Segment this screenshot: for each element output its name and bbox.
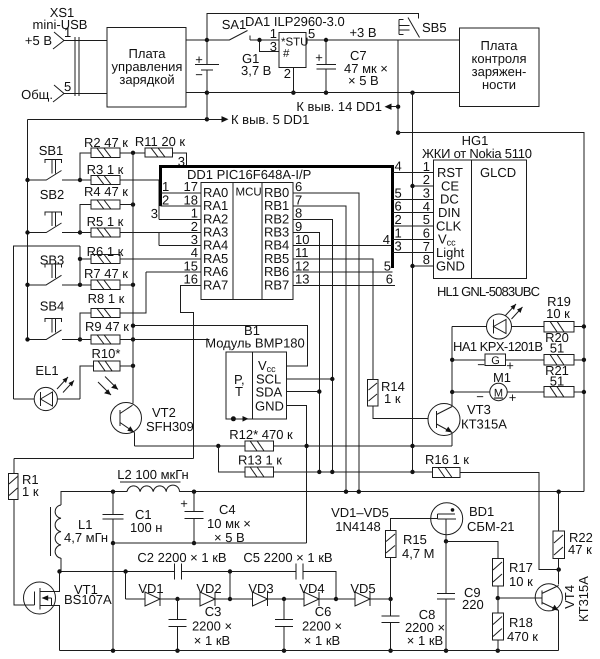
wire DA1 pin3 loop to pin1	[260, 40, 280, 52]
svg-text:RB7: RB7	[264, 277, 289, 292]
capacitor C2 2200x1kV	[137, 550, 226, 580]
pin 4 RA5 line	[120, 258, 201, 260]
inductor L1 4.7mH	[50, 505, 108, 572]
capacitor C9 220	[437, 541, 484, 650]
resistor R19 10k	[544, 294, 584, 332]
module B1 BMP180	[205, 323, 305, 419]
pin 10 RB4 wire	[293, 245, 393, 247]
wire bottom ground rail	[60, 650, 559, 652]
svg-text:R5 1 к: R5 1 к	[87, 214, 124, 229]
pin 3 RA4 line	[159, 233, 201, 246]
wire B1 SCL to RB2	[286, 378, 332, 380]
svg-text:R10*: R10*	[92, 346, 121, 361]
button SB5	[399, 18, 447, 38]
svg-text:Модуль BMP180: Модуль BMP180	[205, 336, 305, 351]
svg-text:mini-USB: mini-USB	[33, 17, 88, 32]
capacitor C5 2200x1kV	[243, 550, 332, 580]
svg-text:4: 4	[395, 159, 402, 174]
svg-text:5: 5	[308, 26, 315, 41]
LED EL1	[14, 363, 80, 411]
wire top rail battery plus	[207, 13, 418, 40]
diode VD3	[230, 581, 284, 606]
svg-text:R7 47 к: R7 47 к	[84, 266, 128, 281]
button SB4	[28, 299, 81, 340]
capacitor C1 100n	[103, 492, 163, 651]
wire ground rail top	[207, 92, 459, 94]
svg-text:SDA: SDA	[256, 385, 283, 400]
svg-text:4,7 мГн: 4,7 мГн	[64, 530, 108, 545]
svg-text:L2 100 мкГн: L2 100 мкГн	[117, 467, 189, 482]
wire Общ. pin5 to board	[64, 93, 107, 95]
wire HG1 +3V frame top and right	[398, 133, 584, 492]
svg-text:C6: C6	[315, 604, 332, 619]
svg-text:3: 3	[151, 206, 158, 221]
svg-text:R18: R18	[509, 615, 533, 630]
node battery/SA1 junction	[205, 38, 209, 42]
svg-text:C2 2200 × 1 кВ: C2 2200 × 1 кВ	[137, 550, 226, 565]
svg-text:RA7: RA7	[203, 277, 228, 292]
svg-text:R8 1 к: R8 1 к	[88, 291, 125, 306]
wire +3V drop to DD1 Vdd and HG1 frame	[397, 40, 399, 133]
resistor R17 10k	[492, 559, 533, 598]
MCU inner box	[201, 183, 293, 300]
svg-text:MCU: MCU	[236, 187, 262, 199]
Geiger tube BD1 SBM-21	[431, 503, 515, 542]
pin 4 DIN stub	[422, 212, 434, 214]
resistor R5 1k	[80, 214, 201, 237]
svg-text:M: M	[494, 388, 503, 400]
pin 16 RA7 line	[180, 285, 201, 458]
svg-text:13: 13	[295, 272, 309, 287]
svg-text:R15: R15	[403, 532, 427, 547]
svg-text:R16 1 к: R16 1 к	[425, 452, 469, 467]
node ground to HG1 drop	[410, 91, 414, 95]
svg-text:1 к: 1 к	[384, 391, 401, 406]
resistor R18 470k	[492, 598, 538, 651]
svg-text:DA1 ILP2960-3.0: DA1 ILP2960-3.0	[245, 14, 345, 29]
resistor R6 1k	[80, 244, 201, 264]
MCU DD1 PIC16F648A-I/P thick bus frame	[161, 167, 393, 269]
label К выв. 14 DD1 with arrow	[296, 99, 398, 114]
pin 9 RB3 wire	[293, 233, 319, 472]
svg-text:+: +	[315, 50, 323, 65]
svg-text:зарядкой: зарядкой	[119, 72, 174, 87]
wire board to battery node	[186, 39, 207, 41]
svg-text:× 5 В: × 5 В	[348, 73, 379, 88]
svg-text:× 1 кВ: × 1 кВ	[194, 633, 230, 648]
display HG1 Nokia 5110	[422, 133, 532, 278]
svg-text:16: 16	[184, 272, 198, 287]
svg-text:C5 2200 × 1 кВ: C5 2200 × 1 кВ	[243, 550, 332, 565]
pin 2 RA3 line	[120, 232, 201, 234]
svg-text:+: +	[195, 52, 203, 67]
resistor R14 1k	[368, 379, 429, 418]
capacitor C6	[275, 599, 342, 651]
svg-text:КТ315А: КТ315А	[576, 576, 591, 622]
wire net6 DD1 to DIN	[393, 212, 422, 214]
svg-text:4: 4	[383, 232, 390, 247]
svg-text:VD5: VD5	[350, 581, 375, 596]
svg-text:220: 220	[462, 597, 484, 612]
svg-text:51: 51	[550, 341, 564, 356]
pin 3 DC stub	[422, 198, 434, 200]
svg-text:−: −	[195, 67, 203, 82]
svg-text:+5 В: +5 В	[25, 33, 52, 48]
wire +3V bottom supply rail	[61, 492, 584, 505]
svg-text:GLCD: GLCD	[480, 165, 516, 180]
resistor R16 1k	[425, 452, 559, 570]
svg-text:R11 20 к: R11 20 к	[135, 134, 186, 149]
svg-text:G: G	[491, 355, 500, 367]
svg-text:+: +	[509, 390, 517, 405]
resistor R20 51	[544, 330, 584, 365]
resistor R12* 470k	[229, 427, 293, 451]
button SB3	[28, 253, 81, 285]
pin 7 Light stub	[422, 252, 434, 254]
svg-text:4,7 М: 4,7 М	[402, 546, 435, 561]
pin 12 RB6 wire	[293, 271, 393, 273]
wire board bottom to ground rail	[186, 92, 207, 94]
resistor R13 1k	[238, 453, 433, 478]
pin 1 RA2 line	[159, 218, 201, 220]
node B1 bottom marker	[231, 416, 236, 421]
svg-text:EL1: EL1	[35, 363, 58, 378]
resistor R2 47k	[80, 135, 145, 180]
resistor R9 47k	[80, 319, 209, 344]
wire BD1 cathode to R17	[446, 541, 498, 558]
wire EL1 chain upper	[14, 246, 80, 399]
svg-text:+3 В: +3 В	[349, 25, 376, 40]
svg-text:1: 1	[64, 25, 71, 40]
resistor R8 1k	[80, 272, 146, 339]
wire +5V pin1 to board	[64, 40, 107, 42]
svg-text:ности: ности	[482, 77, 516, 92]
pin 8 RB2 wire	[293, 219, 332, 472]
svg-text:BS107A: BS107A	[64, 592, 112, 607]
wire drain node row	[60, 572, 337, 600]
svg-text:3: 3	[395, 239, 402, 254]
svg-text:VT2: VT2	[152, 405, 176, 420]
pin 1 RST stub	[422, 172, 434, 174]
pin 5 CLK stub	[422, 225, 434, 227]
svg-text:HA1 KPX-1201B: HA1 KPX-1201B	[453, 339, 543, 354]
svg-text:470 к: 470 к	[507, 629, 538, 644]
pin rows RB0-RB7	[264, 185, 289, 292]
pin rows RA0-RA7	[203, 185, 228, 292]
box charge monitor board (Плата контроля заряженности)	[459, 28, 539, 107]
svg-text:#: #	[283, 48, 290, 60]
svg-text:2: 2	[162, 192, 169, 207]
wire net2 DD1 to CLK	[393, 225, 422, 227]
battery G1	[195, 40, 271, 93]
svg-text:R13 1 к: R13 1 к	[238, 453, 282, 468]
svg-text:R9 47 к: R9 47 к	[85, 319, 129, 334]
wire VT3 collector column	[451, 327, 453, 407]
svg-text:VD4: VD4	[299, 581, 324, 596]
svg-text:1 к: 1 к	[22, 484, 39, 499]
svg-text:VT4: VT4	[562, 585, 577, 609]
LED HL1 GNL-5083UBC	[437, 284, 544, 339]
svg-text:100 н: 100 н	[130, 520, 162, 535]
pin 6 Vcc stub	[422, 238, 434, 240]
wire B1 Vcc to +3V rail	[133, 326, 308, 367]
capacitor C3	[169, 599, 233, 651]
capacitor C7	[315, 40, 388, 93]
wire R13 parallel link	[218, 446, 245, 472]
pin 15 RA6 line	[146, 271, 201, 273]
svg-text:R4 47 к: R4 47 к	[84, 184, 128, 199]
svg-text:R3 1 к: R3 1 к	[87, 162, 124, 177]
wire C2C5 row drops	[126, 572, 230, 600]
svg-text:HL1 GNL-5083UBC: HL1 GNL-5083UBC	[437, 284, 540, 299]
svg-text:M1: M1	[493, 370, 511, 385]
svg-text:R17: R17	[509, 560, 533, 575]
MOSFET VT1 BS107A	[24, 572, 113, 651]
svg-text:К выв. 5 DD1: К выв. 5 DD1	[231, 112, 309, 127]
svg-text:R6 1 к: R6 1 к	[87, 244, 124, 259]
diode VD2	[178, 581, 231, 606]
regulator DA1 ILP2960-3.0	[245, 14, 345, 81]
wire ground drop to HG1 CE GND and bottom	[412, 93, 414, 472]
resistor R10*	[80, 346, 133, 399]
pin 7 RB1 wire	[293, 206, 346, 492]
resistor R3 1k	[80, 162, 159, 219]
svg-text:47 к: 47 к	[568, 542, 592, 557]
svg-text:VT3: VT3	[467, 402, 491, 417]
svg-text:+: +	[180, 496, 188, 511]
diode VD1	[126, 581, 178, 606]
connector XS1 mini-USB	[21, 5, 87, 102]
wire B1 SDA to RB3	[286, 391, 319, 393]
wire ground mid rail C1 C4 to B1 GND	[113, 542, 307, 544]
svg-text:*STU: *STU	[281, 37, 308, 49]
wire left button rail	[27, 119, 29, 339]
diode VD4	[284, 581, 336, 606]
wire 47k common rail	[132, 153, 134, 404]
button SB1	[28, 143, 81, 180]
svg-text:10 мк ×: 10 мк ×	[207, 516, 251, 531]
svg-text:2: 2	[284, 66, 291, 81]
pin 6 RB0 wire	[293, 193, 359, 492]
switch SA1	[207, 17, 279, 40]
phototransistor VT2 SFH309	[98, 377, 194, 446]
wire net5 DD1 to DC	[393, 198, 422, 200]
wire B1 GND down	[286, 406, 306, 543]
capacitor C4 10uF	[180, 492, 251, 545]
resistor R7 47k	[80, 266, 133, 289]
svg-text:5: 5	[64, 79, 71, 94]
svg-text:R12* 470 к: R12* 470 к	[229, 427, 293, 442]
capacitor C8	[382, 599, 445, 651]
svg-text:SB4: SB4	[40, 299, 65, 314]
resistor R1 1k	[8, 459, 38, 606]
pin 8 GND stub	[413, 265, 434, 267]
svg-text:VD1–VD5: VD1–VD5	[331, 505, 389, 520]
pin 18 RA1 line	[161, 205, 202, 207]
svg-text:× 1 кВ: × 1 кВ	[407, 633, 443, 648]
svg-text:SFH309: SFH309	[146, 419, 194, 434]
svg-text:GND: GND	[255, 399, 284, 414]
svg-text:C4: C4	[219, 502, 236, 517]
diode VD5	[336, 581, 391, 606]
svg-text:SA1: SA1	[222, 17, 247, 32]
resistor R11 20k	[135, 134, 187, 169]
wire DA1 pin2 to ground	[292, 67, 294, 92]
resistor R4 47k	[80, 184, 133, 233]
svg-text:3,7 В: 3,7 В	[241, 63, 271, 78]
svg-text:Общ.: Общ.	[21, 87, 53, 102]
transistor VT4 KT315A	[498, 576, 591, 651]
svg-text:2200 ×: 2200 ×	[192, 619, 232, 634]
wire emitter common line	[135, 445, 453, 447]
svg-text:T: T	[235, 384, 243, 399]
resistor R21 51	[544, 363, 584, 397]
resistor R15 4.7M	[385, 519, 437, 599]
motor M1	[452, 370, 544, 405]
svg-text:SB1: SB1	[39, 143, 64, 158]
pin 2 CE stub	[413, 185, 434, 187]
svg-text:10 к: 10 к	[546, 306, 570, 321]
svg-text:−: −	[477, 357, 485, 372]
svg-text:GND: GND	[436, 258, 465, 273]
box charge control board (Плата управления зарядкой)	[107, 28, 186, 108]
svg-text:СБМ-21: СБМ-21	[467, 519, 515, 534]
wire RA7 to R1 top	[14, 458, 194, 460]
pin 11 RB5 wire	[293, 259, 373, 380]
svg-text:10 к: 10 к	[509, 574, 533, 589]
inductor L2 100uH	[117, 467, 189, 492]
pin 13 RB7 wire	[293, 284, 395, 286]
buzzer HA1 KPX-1201B	[452, 339, 544, 373]
wire +3V rail	[306, 39, 459, 41]
svg-text:SB2: SB2	[40, 187, 65, 202]
wire net4 DD1 to RST	[393, 172, 422, 174]
resistor R22 47k	[553, 492, 593, 585]
svg-text:SB5: SB5	[422, 20, 447, 35]
wire R11 net3 to bus	[186, 157, 188, 165]
button SB2	[28, 187, 81, 233]
svg-text:ЖКИ от Nokia 5110: ЖКИ от Nokia 5110	[422, 146, 532, 161]
wire to pin 5 DD1 with arrow	[28, 93, 310, 127]
pin 17 RA0 line	[161, 192, 202, 194]
svg-text:× 1 кВ: × 1 кВ	[304, 633, 340, 648]
svg-text:1N4148: 1N4148	[335, 519, 381, 534]
svg-text:8: 8	[423, 252, 430, 267]
svg-text:КТ315А: КТ315А	[461, 417, 507, 432]
svg-text:C3: C3	[205, 604, 222, 619]
wire net1 DD1 to Vcc	[393, 238, 422, 240]
svg-text:2200 ×: 2200 ×	[302, 619, 342, 634]
svg-text:DD1 PIC16F648A-I/P: DD1 PIC16F648A-I/P	[187, 167, 311, 182]
wire net3 DD1 to Light	[393, 252, 422, 254]
svg-text:BD1: BD1	[469, 504, 494, 519]
transistor VT3 KT315A	[428, 402, 507, 446]
svg-text:6: 6	[386, 272, 393, 287]
